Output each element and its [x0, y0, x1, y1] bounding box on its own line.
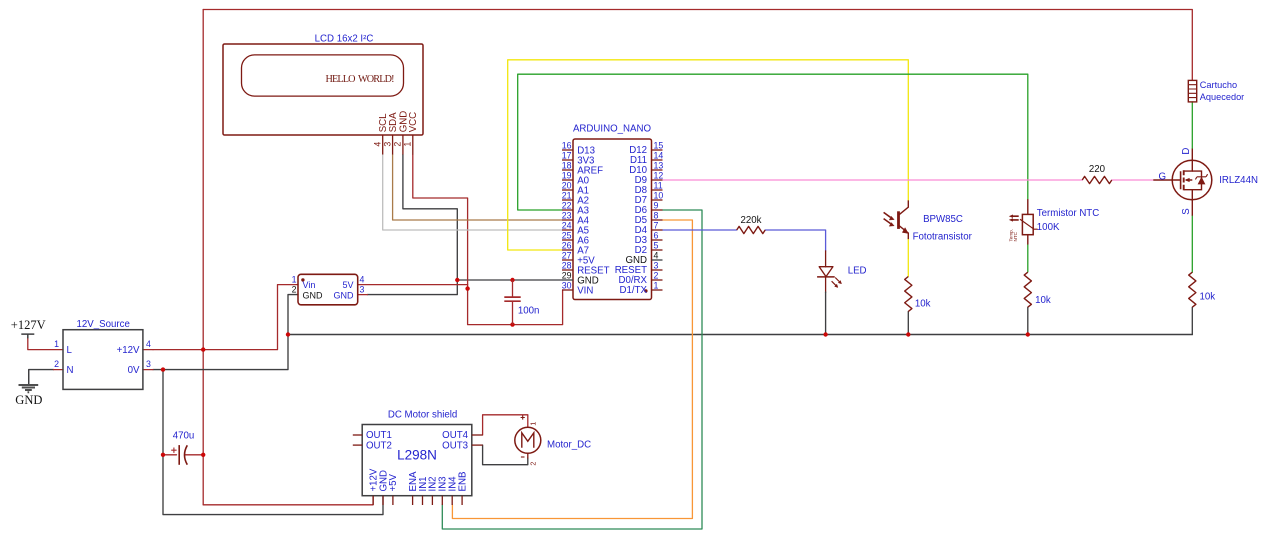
wire blue D4 to 220k — [663, 229, 737, 231]
svg-text:9: 9 — [654, 200, 659, 210]
wire +12V source to regulator Vin — [153, 285, 298, 350]
LCD pin 4 SCL — [373, 113, 390, 155]
wire OUT3 to motor — [483, 445, 528, 465]
capacitor 100n — [504, 280, 539, 325]
wire +12V top rail to heater — [203, 10, 1192, 81]
nano pin 2 D0/RX — [618, 270, 662, 286]
junction 0V — [161, 367, 165, 371]
svg-text:10k: 10k — [1200, 292, 1216, 303]
svg-text:100K: 100K — [1037, 222, 1060, 233]
L298N pin IN1 — [418, 476, 429, 505]
svg-text:GND: GND — [334, 291, 355, 301]
junction fototransistor GND — [906, 332, 910, 336]
svg-text:220: 220 — [1089, 164, 1106, 175]
LCD pin 2 GND — [393, 111, 410, 155]
svg-text:7: 7 — [654, 220, 659, 230]
wire MOSFET 10k to GND bus — [1191, 307, 1193, 334]
wire yellow A7 to fototransistor — [508, 60, 909, 250]
wire OUT4 to motor — [483, 415, 528, 435]
wire green termistor to 10k — [1027, 245, 1029, 272]
svg-text:4: 4 — [360, 274, 365, 284]
LCD module box — [223, 44, 423, 135]
svg-text:2: 2 — [654, 270, 659, 280]
wire LED cathode to GND bus — [825, 277, 827, 292]
svg-text:BPW85C: BPW85C — [923, 214, 963, 225]
svg-text:1: 1 — [528, 422, 537, 426]
svg-text:Fototransistor: Fototransistor — [913, 231, 973, 242]
wire green D6 to IN3 — [442, 210, 702, 529]
Cartucho label — [1200, 80, 1237, 90]
svg-text:3: 3 — [146, 359, 151, 369]
wire VCC LCD down to VIN rail — [413, 155, 563, 325]
nano pin 29 GND — [562, 270, 599, 286]
resistor 10k (fototransistor) — [905, 277, 931, 312]
svg-text:17: 17 — [562, 150, 572, 160]
resistor 220k — [737, 215, 766, 233]
L298N pin IN4 — [448, 476, 459, 505]
nano pin 4 GND — [625, 250, 662, 266]
nano pin 10 D7 — [635, 190, 664, 206]
nano pin 16 D13 — [562, 140, 595, 156]
wire LED anode lead — [825, 251, 827, 267]
regulator pin 4 5V — [342, 274, 364, 290]
Fototransistor label — [913, 231, 973, 242]
regulator pin 2 GND — [292, 285, 323, 301]
svg-text:OUT3: OUT3 — [442, 440, 468, 451]
regulator box — [298, 274, 358, 305]
junction 470u left — [161, 453, 165, 457]
svg-text:5V: 5V — [342, 280, 353, 290]
svg-text:19: 19 — [562, 170, 572, 180]
thermistor temp arrows — [1009, 215, 1019, 222]
Termistor NTC label — [1037, 208, 1099, 219]
IRLZ44N label — [1219, 175, 1258, 186]
svg-text:3: 3 — [654, 260, 659, 270]
svg-text:VCC: VCC — [408, 112, 419, 132]
svg-text:15: 15 — [654, 140, 664, 150]
12V source label — [77, 319, 130, 330]
svg-text:470u: 470u — [173, 431, 195, 442]
100K label — [1037, 222, 1060, 233]
svg-text:D: D — [1181, 148, 1192, 155]
LCD display area — [242, 55, 404, 96]
svg-text:2: 2 — [528, 462, 537, 466]
svg-text:1: 1 — [654, 280, 659, 290]
svg-text:5: 5 — [654, 240, 659, 250]
svg-text:20: 20 — [562, 180, 572, 190]
L298N pin OUT4 — [442, 430, 482, 441]
svg-text:30: 30 — [562, 280, 572, 290]
LCD text HELLO WORLD! — [326, 74, 395, 85]
wire GND 0V from source — [153, 295, 298, 370]
wire 0V pin stub — [143, 369, 153, 371]
svg-text:Aquecedor: Aquecedor — [1200, 92, 1244, 102]
svg-text:22: 22 — [562, 200, 572, 210]
LCD label — [315, 34, 374, 45]
thermistor Termistor NTC 100K — [1020, 199, 1038, 244]
nano pin 11 D8 — [635, 180, 663, 196]
nano pin 20 A1 — [562, 180, 589, 196]
junction GND bus start — [286, 332, 290, 336]
ARDUINO_NANO label — [573, 123, 652, 134]
junction +12V source — [201, 347, 205, 351]
nano pin 28 RESET — [562, 260, 610, 276]
wire fototransistor 10k to GND bus — [907, 312, 909, 335]
svg-text:26: 26 — [562, 240, 572, 250]
svg-text:L: L — [67, 345, 73, 356]
nano pin 25 A6 — [562, 230, 589, 246]
wire LED dark lead — [825, 292, 827, 334]
junction termistor GND — [1026, 332, 1030, 336]
nano pin 3 RESET — [615, 260, 663, 276]
svg-text:100n: 100n — [518, 305, 540, 316]
wire +127V flag wire — [28, 338, 63, 349]
junction 100n top — [510, 278, 514, 282]
L298N pin IN2 — [428, 476, 439, 505]
svg-text:NTC: NTC — [1013, 231, 1018, 241]
svg-text:D1/TX: D1/TX — [620, 285, 648, 296]
MOSFET source stub — [1181, 200, 1193, 216]
svg-text:23: 23 — [562, 210, 572, 220]
svg-text:VIN: VIN — [577, 285, 593, 296]
svg-text:29: 29 — [562, 270, 572, 280]
wire GND LCD to regulator and nano pin29 — [367, 155, 457, 295]
transistor Q? BPW85C fototransistor — [899, 200, 909, 239]
junction LED GND — [823, 332, 827, 336]
wire pink D9 to 220 resistor — [663, 179, 1083, 181]
junction 470u right — [201, 453, 205, 457]
svg-text:18: 18 — [562, 160, 572, 170]
motor pin 1 + — [521, 415, 538, 425]
nano pin 22 A3 — [562, 200, 589, 216]
L298N pin GND — [378, 470, 389, 505]
LED D? — [817, 267, 841, 288]
svg-text:8: 8 — [654, 210, 659, 220]
nano pin 12 D9 — [635, 170, 664, 186]
L298N pin ENB — [457, 472, 468, 505]
svg-text:HELLO WORLD!: HELLO WORLD! — [326, 74, 395, 85]
wire orange D5 to IN4 — [452, 220, 692, 519]
capacitor 470u — [171, 431, 194, 465]
Aquecedor label — [1200, 92, 1244, 102]
nano pin 21 A2 — [562, 190, 589, 206]
svg-text:25: 25 — [562, 230, 572, 240]
svg-text:12: 12 — [654, 170, 664, 180]
wire green A3 to termistor — [518, 74, 1028, 210]
power flag +127V — [11, 318, 46, 339]
nano pin 6 D3 — [635, 230, 663, 246]
LCD pin 1 VCC — [403, 112, 420, 155]
L298N pin OUT1 — [353, 430, 392, 441]
nano pin 26 A7 — [562, 240, 589, 256]
nano pin 27 +5V — [562, 250, 596, 266]
svg-text:10k: 10k — [1035, 295, 1051, 306]
DC Motor shield label — [388, 410, 457, 421]
nano pin 23 A4 — [562, 210, 590, 226]
svg-text:14: 14 — [654, 150, 664, 160]
12V source pin 2 N — [54, 359, 73, 376]
svg-text:GND: GND — [303, 291, 324, 301]
L298N pin OUT2 — [353, 440, 392, 451]
LED label — [848, 266, 867, 277]
L298N pin OUT3 — [442, 440, 482, 451]
svg-text:11: 11 — [654, 180, 663, 190]
junction GND LCD T — [455, 278, 459, 282]
svg-text:1: 1 — [292, 274, 297, 284]
svg-text:GND: GND — [15, 393, 42, 407]
wire yellow fototransistor emitter — [907, 239, 909, 276]
ground symbol GND — [15, 370, 42, 407]
svg-text:LCD 16x2 I²C: LCD 16x2 I²C — [315, 34, 374, 45]
svg-text:N: N — [67, 365, 74, 376]
nano pin 8 D5 — [635, 210, 663, 226]
BPW85C label — [923, 214, 963, 225]
wire +12V bottom to L298N — [203, 496, 373, 505]
regulator pin 1 Vin — [292, 274, 316, 290]
svg-text:4: 4 — [654, 250, 659, 260]
wire N pin stub — [54, 369, 64, 371]
wire regulator GND pin3 stub — [358, 294, 368, 296]
svg-text:ARDUINO_NANO: ARDUINO_NANO — [573, 123, 652, 134]
svg-text:ENB: ENB — [457, 472, 468, 492]
motor pin 2 - — [521, 457, 537, 466]
12V source pin 3 0V — [128, 359, 151, 376]
nano pin 18 AREF — [562, 160, 603, 176]
svg-text:+5V: +5V — [388, 473, 399, 491]
L298N pin +12V — [368, 468, 379, 505]
svg-text:1: 1 — [54, 339, 59, 349]
wire green source to 10k — [1191, 216, 1193, 273]
thermistor tiny rotated text — [1008, 229, 1018, 242]
wire GND flag wire — [29, 370, 54, 385]
wire +12V left vertical — [202, 10, 204, 505]
svg-text:Motor_DC: Motor_DC — [547, 439, 591, 450]
regulator pin 3 GND — [334, 285, 365, 301]
svg-text:Termistor NTC: Termistor NTC — [1037, 208, 1099, 219]
svg-text:13: 13 — [654, 160, 664, 170]
motor M Motor_DC — [515, 427, 541, 453]
nano pin 24 A5 — [562, 220, 589, 236]
svg-text:G: G — [1159, 172, 1167, 183]
L298N motor shield box — [362, 425, 472, 496]
L298N pin ENA — [408, 471, 419, 505]
nano pin 7 D4 — [635, 220, 663, 236]
nano pin 13 D10 — [629, 160, 663, 176]
wire SCL gray to A5 — [383, 155, 562, 231]
svg-text:Vin: Vin — [303, 280, 316, 290]
12V source box — [63, 330, 143, 390]
nano pin 17 3V3 — [562, 150, 595, 166]
svg-text:3: 3 — [360, 285, 365, 295]
wire green heater to drain — [1191, 102, 1193, 149]
heater Cartucho Aquecedor — [1188, 80, 1196, 102]
wire GND left vertical to bottom rail — [163, 370, 383, 515]
L298N pin +5V — [388, 473, 399, 505]
Motor_DC label — [547, 439, 591, 450]
fototransistor light arrows — [884, 212, 895, 226]
svg-text:220k: 220k — [740, 215, 761, 226]
nano pin 5 D2 — [635, 240, 663, 256]
nano pin 1 D1/TX — [620, 280, 663, 296]
resistor 10k (termistor) — [1024, 272, 1051, 307]
wire termistor 10k to GND bus — [1027, 307, 1029, 334]
svg-text:10k: 10k — [915, 299, 931, 310]
svg-text:4: 4 — [146, 339, 151, 349]
svg-text:2: 2 — [393, 142, 403, 147]
nano pin 19 A0 — [562, 170, 590, 186]
svg-text:24: 24 — [562, 220, 572, 230]
svg-text:4: 4 — [373, 142, 383, 147]
wire GND bus horizontal — [288, 334, 1192, 336]
svg-text:IRLZ44N: IRLZ44N — [1219, 175, 1258, 186]
svg-text:L298N: L298N — [397, 447, 437, 462]
wire motor bottom lead — [527, 453, 529, 458]
nano pin 30 VIN — [562, 280, 594, 296]
transistor Q? IRLZ44N MOSFET — [1153, 160, 1211, 200]
svg-text:0V: 0V — [128, 365, 140, 376]
svg-text:+127V: +127V — [11, 318, 46, 332]
wire 5V regulator output — [358, 284, 468, 286]
op-amp U? ARDUINO_NANO box — [573, 139, 652, 300]
svg-text:+12V: +12V — [117, 345, 140, 356]
MOSFET gate label G — [1159, 172, 1167, 183]
wire blue 220k to LED — [765, 230, 825, 251]
L298N value label — [397, 447, 437, 462]
junction 5V node — [465, 286, 469, 290]
wire pink 220 to IRLZ44N gate — [1112, 179, 1154, 181]
svg-text:6: 6 — [654, 230, 659, 240]
nano pin 14 D11 — [630, 150, 663, 166]
L298N pin IN3 — [438, 476, 449, 505]
svg-text:S: S — [1181, 208, 1192, 215]
svg-text:Cartucho: Cartucho — [1200, 80, 1237, 90]
svg-text:LED: LED — [848, 266, 867, 277]
svg-text:10: 10 — [654, 190, 664, 200]
junction 100n bottom — [510, 322, 514, 326]
resistor 10k (MOSFET source) — [1189, 272, 1216, 307]
12V source pin 1 L — [54, 339, 72, 356]
svg-text:2: 2 — [54, 359, 59, 369]
12V source pin 4 +12V — [117, 339, 151, 356]
svg-text:21: 21 — [562, 190, 572, 200]
svg-text:28: 28 — [562, 260, 572, 270]
svg-text:27: 27 — [562, 250, 572, 260]
wire GND branch to nano pin 29 — [457, 279, 562, 281]
LCD pin 3 SDA — [382, 112, 399, 155]
wire 470u left lead — [163, 454, 177, 456]
svg-text:3: 3 — [382, 142, 392, 147]
nano pin 15 D12 — [629, 140, 663, 156]
svg-text:2: 2 — [292, 285, 297, 295]
svg-text:12V_Source: 12V_Source — [77, 319, 130, 330]
svg-text:DC Motor shield: DC Motor shield — [388, 410, 457, 421]
resistor 220 — [1082, 164, 1112, 184]
wire 470u right lead — [185, 454, 203, 456]
svg-text:OUT2: OUT2 — [366, 440, 392, 451]
MOSFET drain stub — [1181, 148, 1193, 161]
wire +12V pin stub — [143, 349, 153, 351]
svg-text:16: 16 — [562, 140, 572, 150]
svg-text:1: 1 — [403, 142, 413, 147]
wire SDA brown to A4 — [393, 155, 562, 221]
nano pin 9 D6 — [635, 200, 663, 216]
